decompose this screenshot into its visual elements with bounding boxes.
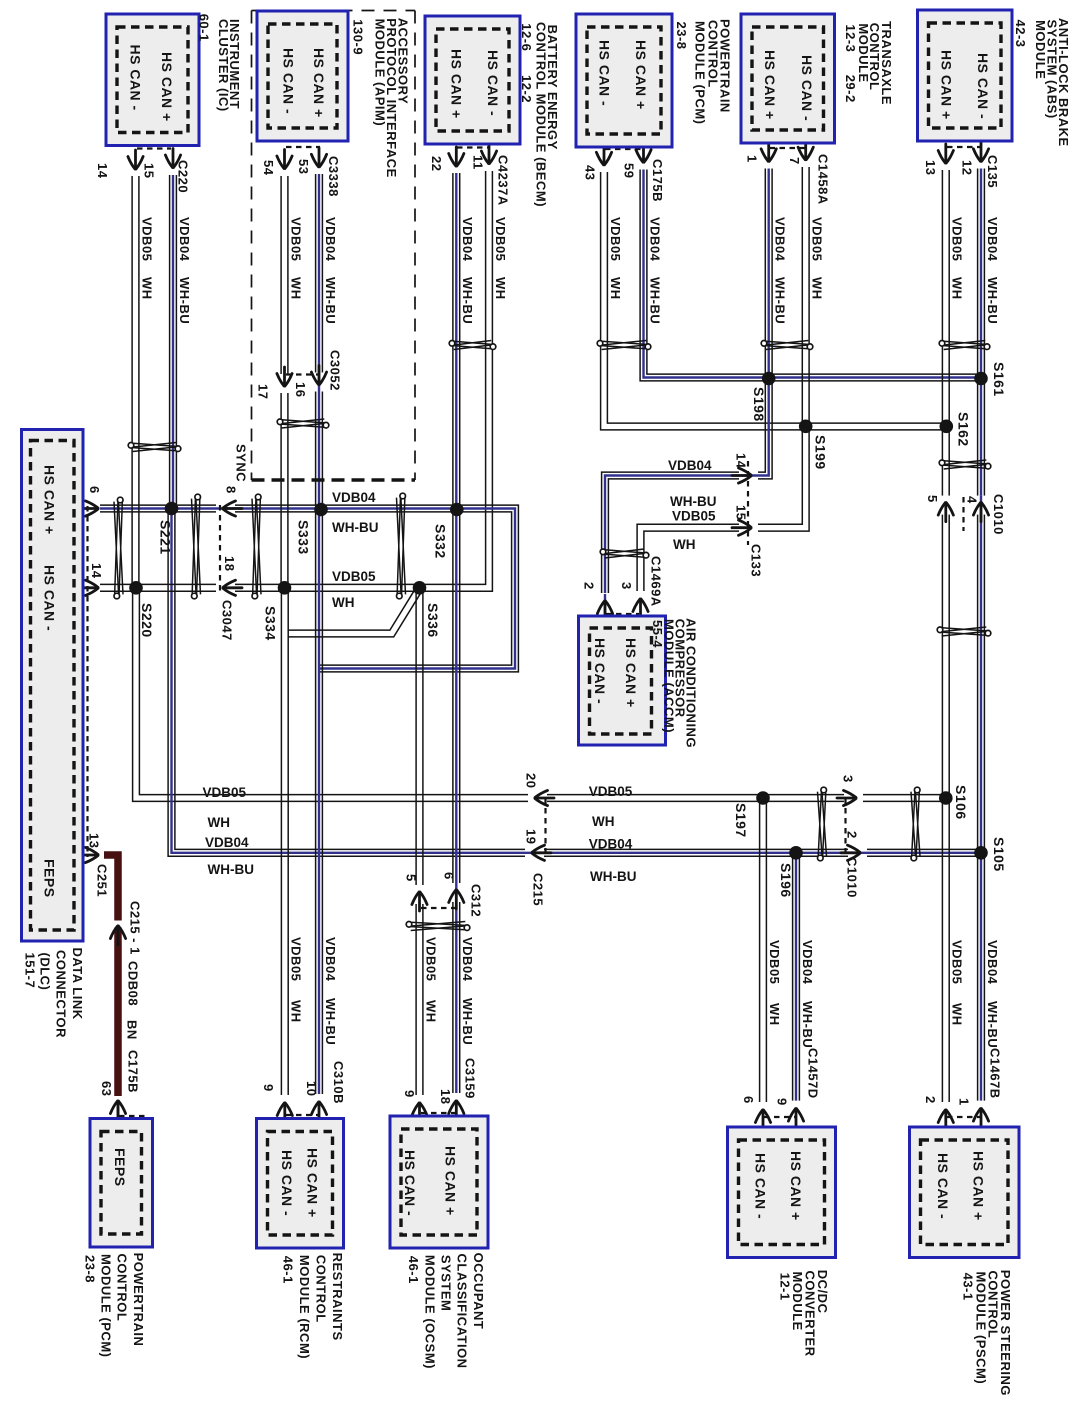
svg-text:VDB04: VDB04 — [205, 835, 249, 850]
svg-text:WH: WH — [288, 277, 303, 300]
svg-text:4: 4 — [964, 496, 979, 504]
svg-text:HS CAN -: HS CAN - — [975, 53, 991, 119]
svg-text:CONTROL: CONTROL — [314, 1255, 329, 1323]
svg-text:BN: BN — [124, 1020, 139, 1040]
svg-text:59: 59 — [621, 163, 636, 178]
svg-text:VDB05: VDB05 — [810, 217, 825, 261]
svg-text:HS CAN +: HS CAN + — [311, 48, 327, 118]
svg-text:2: 2 — [844, 831, 859, 839]
svg-text:VDB04: VDB04 — [985, 940, 1000, 985]
svg-text:S333: S333 — [296, 520, 312, 555]
svg-text:C215 - 1: C215 - 1 — [127, 901, 142, 955]
svg-text:12: 12 — [959, 160, 974, 175]
svg-text:HS CAN +: HS CAN + — [939, 50, 955, 120]
svg-text:VDB04: VDB04 — [323, 217, 338, 262]
svg-text:C3047: C3047 — [219, 600, 234, 641]
svg-text:S196: S196 — [778, 863, 794, 898]
svg-text:FEPS: FEPS — [42, 859, 58, 898]
svg-text:1: 1 — [957, 1098, 972, 1106]
svg-text:S197: S197 — [733, 803, 749, 838]
svg-text:VDB05: VDB05 — [767, 940, 782, 984]
svg-text:VDB04: VDB04 — [800, 940, 815, 985]
svg-text:C3159: C3159 — [462, 1058, 477, 1099]
svg-text:VDB05: VDB05 — [423, 937, 438, 981]
svg-text:WH: WH — [673, 537, 696, 552]
svg-text:C175B: C175B — [125, 1050, 140, 1093]
svg-text:29-2: 29-2 — [843, 75, 858, 103]
svg-text:63: 63 — [99, 1081, 114, 1096]
svg-text:C135: C135 — [985, 155, 1000, 188]
svg-text:10: 10 — [304, 1081, 319, 1096]
svg-text:HS CAN -: HS CAN - — [279, 1150, 295, 1216]
svg-text:17: 17 — [255, 384, 270, 399]
svg-text:WH: WH — [289, 1000, 304, 1023]
svg-text:HS CAN +: HS CAN + — [443, 1146, 459, 1216]
svg-text:HS CAN -: HS CAN - — [592, 638, 608, 704]
svg-text:VDB05: VDB05 — [608, 217, 623, 261]
svg-text:12-2: 12-2 — [519, 75, 534, 103]
svg-text:HS CAN +: HS CAN + — [970, 1151, 986, 1221]
svg-text:2: 2 — [581, 582, 596, 590]
svg-text:55-4: 55-4 — [650, 620, 665, 648]
svg-text:C133: C133 — [748, 544, 763, 577]
svg-text:WH: WH — [950, 1003, 965, 1026]
svg-text:VDB04: VDB04 — [323, 937, 338, 982]
svg-text:6: 6 — [441, 872, 456, 880]
svg-text:C175B: C175B — [650, 159, 665, 202]
svg-text:MODULE (OCSM): MODULE (OCSM) — [422, 1255, 437, 1369]
svg-text:46-1: 46-1 — [406, 1256, 421, 1284]
svg-text:HS CAN -: HS CAN - — [128, 45, 144, 111]
svg-text:151-7: 151-7 — [22, 953, 37, 989]
svg-text:VDB05: VDB05 — [289, 937, 304, 981]
svg-text:S105: S105 — [991, 837, 1007, 872]
svg-text:11: 11 — [470, 155, 485, 170]
svg-text:14: 14 — [95, 163, 110, 179]
svg-text:6: 6 — [741, 1096, 756, 1104]
svg-text:C3052: C3052 — [327, 350, 342, 391]
svg-text:MODULE (RCM): MODULE (RCM) — [297, 1255, 312, 1359]
svg-text:S334: S334 — [263, 606, 279, 641]
svg-text:130-9: 130-9 — [350, 19, 365, 55]
svg-text:S332: S332 — [433, 524, 449, 559]
svg-text:WH: WH — [208, 815, 231, 830]
svg-text:C1458A: C1458A — [816, 154, 831, 205]
svg-text:VDB05: VDB05 — [950, 940, 965, 984]
svg-text:HS CAN -: HS CAN - — [597, 40, 613, 106]
svg-text:15: 15 — [733, 505, 748, 520]
svg-text:WH: WH — [423, 1000, 438, 1023]
svg-text:WH-BU: WH-BU — [323, 998, 338, 1045]
svg-text:VDB05: VDB05 — [493, 217, 508, 261]
svg-text:12-1: 12-1 — [777, 1273, 792, 1301]
svg-text:S199: S199 — [813, 435, 829, 470]
svg-text:WH: WH — [608, 277, 623, 300]
svg-text:23-8: 23-8 — [674, 22, 689, 50]
svg-text:C1457D: C1457D — [805, 1048, 820, 1099]
svg-text:C251: C251 — [94, 864, 109, 897]
svg-text:3: 3 — [619, 582, 634, 590]
svg-text:WH-BU: WH-BU — [323, 277, 338, 324]
svg-text:HS CAN +: HS CAN + — [762, 50, 778, 120]
svg-text:HS CAN -: HS CAN - — [42, 565, 58, 631]
svg-text:WH-BU: WH-BU — [985, 277, 1000, 324]
svg-text:WH-BU: WH-BU — [332, 520, 379, 535]
svg-text:S336: S336 — [425, 603, 441, 638]
svg-text:C310B: C310B — [331, 1061, 346, 1104]
svg-text:MODULE (PCM): MODULE (PCM) — [692, 21, 707, 125]
svg-text:HS CAN +: HS CAN + — [633, 40, 649, 110]
svg-text:8: 8 — [223, 486, 238, 494]
svg-text:VDB04: VDB04 — [460, 937, 475, 982]
svg-text:5: 5 — [403, 874, 418, 882]
svg-text:(DLC): (DLC) — [37, 953, 52, 991]
svg-text:53: 53 — [296, 159, 311, 174]
svg-text:C220: C220 — [175, 160, 190, 193]
svg-text:43: 43 — [582, 165, 597, 180]
svg-text:20: 20 — [523, 773, 538, 788]
svg-text:C4237A: C4237A — [495, 155, 510, 206]
svg-text:RESTRAINTS: RESTRAINTS — [330, 1253, 345, 1341]
svg-text:7: 7 — [787, 157, 802, 165]
svg-text:HS CAN +: HS CAN + — [159, 52, 175, 122]
svg-text:C3338: C3338 — [326, 156, 341, 197]
svg-text:CONNECTOR: CONNECTOR — [53, 950, 68, 1038]
svg-text:C215: C215 — [530, 873, 545, 906]
svg-text:9: 9 — [261, 1084, 276, 1092]
svg-text:23-8: 23-8 — [82, 1255, 97, 1283]
svg-text:HS CAN +: HS CAN + — [448, 49, 464, 119]
svg-text:HS CAN -: HS CAN - — [753, 1153, 769, 1219]
svg-text:CLUSTER (IC): CLUSTER (IC) — [216, 19, 231, 112]
svg-text:WH: WH — [950, 277, 965, 300]
svg-text:S161: S161 — [991, 362, 1007, 397]
svg-text:C312: C312 — [468, 884, 483, 917]
svg-text:WH-BU: WH-BU — [208, 862, 255, 877]
svg-text:HS CAN -: HS CAN - — [485, 50, 501, 116]
svg-text:VDB04: VDB04 — [773, 217, 788, 262]
svg-text:VDB04: VDB04 — [177, 217, 192, 262]
svg-text:5: 5 — [925, 495, 940, 503]
svg-text:HS CAN +: HS CAN + — [304, 1148, 320, 1218]
svg-text:VDB04: VDB04 — [332, 490, 376, 505]
svg-text:CDB08: CDB08 — [125, 961, 140, 1006]
svg-text:HS CAN +: HS CAN + — [623, 638, 639, 708]
svg-text:HS CAN -: HS CAN - — [935, 1153, 951, 1219]
svg-text:OCCUPANT: OCCUPANT — [471, 1253, 486, 1330]
svg-text:WH: WH — [332, 595, 355, 610]
svg-text:VDB05: VDB05 — [332, 569, 376, 584]
svg-text:VDB05: VDB05 — [589, 784, 633, 799]
svg-text:SYSTEM: SYSTEM — [439, 1255, 454, 1311]
svg-text:9: 9 — [402, 1090, 417, 1098]
svg-text:MODULE (PCM): MODULE (PCM) — [99, 1254, 114, 1358]
svg-text:VDB05: VDB05 — [950, 217, 965, 261]
svg-text:MODULE: MODULE — [1033, 20, 1048, 79]
svg-text:WH-BU: WH-BU — [590, 869, 637, 884]
svg-text:VDB04: VDB04 — [668, 458, 712, 473]
svg-text:C1469A: C1469A — [648, 556, 663, 607]
svg-text:HS CAN -: HS CAN - — [799, 55, 815, 121]
svg-text:WH-BU: WH-BU — [985, 1001, 1000, 1048]
svg-text:WH-BU: WH-BU — [773, 277, 788, 324]
svg-text:9: 9 — [774, 1098, 789, 1106]
svg-text:WH-BU: WH-BU — [647, 277, 662, 324]
svg-text:S221: S221 — [158, 520, 174, 555]
svg-text:22: 22 — [429, 156, 444, 171]
svg-text:VDB04: VDB04 — [647, 217, 662, 262]
svg-text:S220: S220 — [139, 603, 155, 638]
svg-text:15: 15 — [141, 163, 156, 178]
svg-text:2: 2 — [923, 1096, 938, 1104]
svg-text:VDB05: VDB05 — [288, 217, 303, 261]
svg-text:CLASSIFICATION: CLASSIFICATION — [455, 1254, 470, 1369]
svg-text:C1010: C1010 — [991, 494, 1006, 535]
svg-text:HS CAN +: HS CAN + — [42, 465, 58, 535]
svg-text:60-1: 60-1 — [197, 14, 212, 42]
svg-text:C1010: C1010 — [844, 857, 859, 898]
svg-text:CONTROL: CONTROL — [115, 1254, 130, 1322]
svg-text:14: 14 — [89, 563, 104, 579]
svg-text:WH-BU: WH-BU — [800, 1001, 815, 1048]
svg-text:43-1: 43-1 — [961, 1273, 976, 1301]
svg-text:FEPS: FEPS — [112, 1148, 128, 1187]
svg-text:19: 19 — [523, 829, 538, 844]
svg-text:1: 1 — [744, 155, 759, 163]
svg-text:HS CAN +: HS CAN + — [788, 1151, 804, 1221]
svg-text:WH: WH — [810, 277, 825, 300]
svg-text:54: 54 — [261, 160, 276, 176]
svg-text:S106: S106 — [953, 785, 969, 820]
svg-text:WH-BU: WH-BU — [670, 494, 717, 509]
svg-text:WH: WH — [139, 277, 154, 300]
svg-text:S162: S162 — [956, 412, 972, 447]
svg-text:14: 14 — [733, 453, 748, 469]
svg-text:3: 3 — [840, 775, 855, 783]
svg-text:WH: WH — [767, 1003, 782, 1026]
svg-text:VDB05: VDB05 — [203, 785, 247, 800]
svg-text:WH-BU: WH-BU — [177, 277, 192, 324]
svg-text:POWERTRAIN: POWERTRAIN — [131, 1253, 146, 1347]
svg-text:VDB05: VDB05 — [139, 217, 154, 261]
svg-text:VDB04: VDB04 — [460, 217, 475, 262]
svg-text:46-1: 46-1 — [280, 1256, 295, 1284]
svg-text:WH-BU: WH-BU — [460, 998, 475, 1045]
svg-text:6: 6 — [87, 486, 102, 494]
svg-text:S198: S198 — [751, 387, 767, 422]
svg-text:WH: WH — [493, 277, 508, 300]
svg-text:CONTROL MODULE (BECM): CONTROL MODULE (BECM) — [533, 22, 548, 207]
svg-text:16: 16 — [293, 382, 308, 397]
svg-text:SYNC: SYNC — [233, 444, 248, 482]
svg-text:VDB04: VDB04 — [985, 217, 1000, 262]
svg-text:C1467B: C1467B — [987, 1048, 1002, 1099]
svg-text:HS CAN -: HS CAN - — [402, 1150, 418, 1216]
svg-text:HS CAN -: HS CAN - — [281, 48, 297, 114]
svg-text:WH: WH — [592, 814, 615, 829]
svg-text:13: 13 — [86, 833, 101, 848]
svg-text:18: 18 — [438, 1089, 453, 1104]
svg-text:12-6: 12-6 — [519, 23, 534, 51]
svg-text:VDB04: VDB04 — [589, 837, 633, 852]
svg-text:MODULE (APIM): MODULE (APIM) — [372, 19, 387, 127]
svg-text:WH-BU: WH-BU — [460, 277, 475, 324]
svg-text:13: 13 — [923, 160, 938, 175]
svg-text:12-3: 12-3 — [843, 24, 858, 52]
svg-text:DATA LINK: DATA LINK — [70, 948, 85, 1020]
svg-text:18: 18 — [222, 556, 237, 571]
svg-text:VDB05: VDB05 — [672, 509, 716, 524]
svg-text:42-3: 42-3 — [1013, 20, 1028, 48]
